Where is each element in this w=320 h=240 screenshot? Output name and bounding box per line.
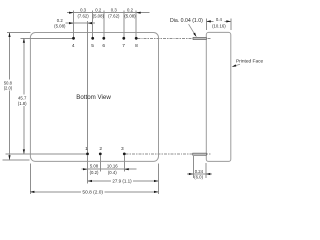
ext line pin7 — [123, 10, 125, 37]
pin offset dim line 0.2 — [66, 22, 96, 24]
centerline pin8 to side pin — [137, 37, 210, 39]
svg-text:(10.16): (10.16) — [212, 23, 226, 28]
arrow 50.8 top — [8, 33, 10, 38]
ext line pin1 long — [87, 21, 89, 152]
side pin top — [193, 37, 206, 39]
svg-text:(6.0): (6.0) — [194, 174, 203, 179]
ext line right edge down — [158, 164, 160, 194]
dim line 50.8 vertical — [9, 33, 11, 80]
svg-text:(7.62): (7.62) — [77, 13, 89, 18]
ext line pin5 — [92, 10, 94, 37]
svg-text:(0.4): (0.4) — [108, 170, 117, 175]
svg-text:Printed Face: Printed Face — [236, 59, 264, 65]
package outline bottom view — [30, 33, 158, 162]
ext line pin8 — [135, 10, 137, 37]
arrow pitch right — [124, 168, 129, 170]
arrow 50.8 bottom left — [30, 191, 35, 193]
ext line left edge down — [29, 164, 31, 194]
arrow 0.4 left — [206, 20, 211, 22]
arrow offset right — [88, 22, 93, 24]
svg-text:0.2: 0.2 — [127, 8, 134, 13]
arrow 50.8 bottom — [8, 155, 10, 160]
pin 3 dot — [123, 153, 126, 156]
ext line pin3 down — [123, 156, 125, 172]
leader dia — [189, 24, 195, 34]
arrow chain left — [69, 12, 74, 14]
svg-text:4: 4 — [72, 43, 75, 49]
side view case outline — [206, 32, 231, 161]
ext line case bottom left down — [205, 163, 207, 178]
svg-text:1: 1 — [85, 146, 88, 152]
arrow 45.7 bottom — [23, 149, 25, 154]
dim line 27.9 — [88, 180, 112, 182]
svg-text:8: 8 — [135, 43, 138, 49]
arrow offset left — [69, 22, 74, 24]
arrow printed face leader — [232, 64, 237, 67]
pin 8 dot — [135, 37, 138, 40]
arrow chain right — [136, 12, 141, 14]
svg-text:5: 5 — [91, 43, 94, 49]
svg-text:Bottom View: Bottom View — [76, 94, 111, 101]
svg-text:(7.62): (7.62) — [108, 13, 120, 18]
arrow 50.8 bottom right — [154, 191, 159, 193]
pin 6 dot — [102, 37, 105, 40]
dim line 45.7 vertical — [23, 38, 25, 94]
svg-text:2: 2 — [99, 146, 102, 152]
ext line pin4 — [73, 10, 75, 37]
svg-text:(5.08): (5.08) — [54, 24, 66, 29]
svg-text:Dia. 0.04 (1.0): Dia. 0.04 (1.0) — [170, 18, 203, 24]
arrow 0.24 left — [189, 173, 194, 175]
svg-text:0.4: 0.4 — [216, 17, 223, 22]
ext line top edge left — [7, 32, 31, 34]
arrow dia leader — [193, 33, 196, 37]
svg-text:10.16: 10.16 — [107, 164, 118, 169]
ext line pin2 down — [99, 156, 101, 172]
ext line pin1 down — [87, 156, 89, 184]
svg-text:45.7: 45.7 — [18, 96, 27, 101]
bottom pin pitch dim line — [81, 168, 136, 170]
arrow pitch left — [83, 168, 88, 170]
pin 7 dot — [122, 37, 125, 40]
centerline pin3 to side pin — [126, 153, 211, 155]
svg-text:27.9 (1.1): 27.9 (1.1) — [112, 179, 132, 184]
ext line bottom pin row left — [6, 153, 88, 155]
ext line case left up — [205, 18, 207, 30]
svg-text:(1.8): (1.8) — [18, 101, 27, 106]
svg-text:3: 3 — [121, 146, 124, 152]
ext line pin left end down — [192, 156, 194, 178]
side pin bottom — [193, 153, 207, 155]
leader printed face — [235, 64, 240, 66]
arrow 45.7 top — [23, 38, 25, 43]
arrow 27.9 left — [88, 180, 93, 182]
dim line 0.24 — [187, 173, 212, 175]
svg-text:(5.08): (5.08) — [93, 13, 105, 18]
pin 4 dot — [72, 37, 75, 40]
svg-text:6: 6 — [102, 43, 105, 49]
dim line 0.4 top — [206, 20, 213, 22]
svg-text:0.3: 0.3 — [80, 8, 87, 13]
top chain dimension line — [67, 12, 150, 14]
svg-text:5.08: 5.08 — [90, 164, 99, 169]
svg-text:0.24: 0.24 — [195, 169, 204, 174]
svg-text:(5.08): (5.08) — [124, 13, 136, 18]
pin 2 dot — [99, 153, 102, 156]
pin 1 dot — [86, 153, 89, 156]
ext line top pin row left — [21, 37, 74, 39]
svg-text:0.3: 0.3 — [111, 8, 118, 13]
svg-text:7: 7 — [122, 43, 125, 49]
dim line 50.8 bottom — [30, 191, 81, 193]
ext line pin6 — [103, 10, 105, 37]
arrow 27.9 right — [154, 180, 159, 182]
svg-text:0.2: 0.2 — [57, 18, 64, 23]
svg-text:(2.0): (2.0) — [4, 86, 13, 91]
arrow 0.24 right — [206, 173, 211, 175]
pin 5 dot — [91, 37, 94, 40]
svg-text:0.2: 0.2 — [95, 8, 102, 13]
ext line bottom edge left — [3, 159, 30, 161]
arrow 0.4 right — [226, 20, 231, 22]
svg-text:50.8 (2.0): 50.8 (2.0) — [82, 190, 103, 196]
ext line case right up — [230, 18, 232, 30]
svg-text:(0.2): (0.2) — [90, 170, 99, 175]
